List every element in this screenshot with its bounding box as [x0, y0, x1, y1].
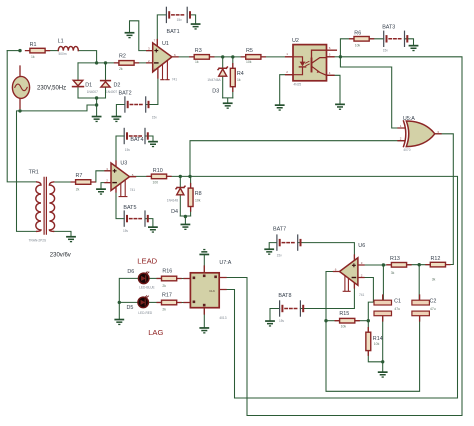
svg-text:U7:A: U7:A	[219, 260, 231, 266]
wire node B up branch to U5 input2	[190, 141, 404, 177]
wire U6 pin2 jog down to R15 node	[358, 278, 374, 321]
svg-text:1N4746A: 1N4746A	[207, 78, 221, 82]
svg-text:15v: 15v	[177, 18, 183, 22]
wire R16 to U7	[177, 278, 191, 280]
ground U3 inverting	[96, 188, 106, 194]
wire C1 top branch	[382, 265, 384, 300]
node D3 junction	[221, 55, 224, 58]
wire D6 D5 left rail to ground	[119, 278, 138, 318]
wire BAT7 right to U6 V+	[298, 243, 355, 261]
svg-text:R10: R10	[153, 168, 163, 174]
svg-text:1k: 1k	[195, 60, 199, 64]
wire diode top rail D1-D2-R2	[78, 62, 119, 64]
wire BAT4 right to ground	[145, 136, 153, 141]
wire R5 to U2 pin1	[261, 56, 293, 58]
wire BAT1 right to ground	[190, 15, 196, 23]
resistor R17	[157, 300, 181, 305]
battery BAT2	[124, 96, 149, 112]
wire D3 bottom	[222, 76, 224, 98]
WIRES_RIGHTLOOPS	[119, 57, 462, 416]
wire U7 vcc stem	[203, 255, 205, 272]
svg-text:100: 100	[153, 180, 159, 184]
svg-text:2k: 2k	[162, 284, 166, 288]
svg-text:2k: 2k	[119, 67, 123, 71]
svg-text:C1: C1	[394, 299, 401, 305]
optocoupler U2	[286, 45, 337, 81]
svg-text:BAT1: BAT1	[167, 29, 180, 35]
wire TR1 secondary bottom to ground	[54, 231, 71, 236]
wire R4 branch	[232, 57, 234, 69]
battery BAT1	[166, 7, 191, 23]
svg-text:D5: D5	[127, 305, 134, 311]
ground U2 pin4	[335, 104, 345, 110]
led D5	[138, 296, 149, 308]
wire C2 top branch	[418, 265, 420, 300]
wire D1 bottom	[77, 88, 79, 98]
power symbol U7 vcc	[199, 249, 209, 255]
svg-text:R1: R1	[30, 42, 37, 48]
svg-text:1N4007: 1N4007	[106, 90, 117, 94]
svg-text:R5: R5	[246, 48, 253, 54]
resistor R2	[115, 61, 139, 66]
svg-text:47u: 47u	[394, 307, 400, 311]
wire R14 bottom to ground node	[368, 351, 382, 362]
svg-text:R16: R16	[162, 268, 172, 274]
battery BAT8	[279, 300, 304, 316]
resistor R1	[26, 48, 50, 53]
wire C1 bottom to ground node	[382, 316, 384, 371]
svg-text:3k: 3k	[432, 277, 436, 281]
wire U1 ground to noninverting input	[130, 21, 153, 51]
resistor R16	[157, 276, 181, 281]
ground BAT3	[409, 45, 419, 51]
node A U2 pin5 junction	[339, 55, 342, 58]
svg-text:R13: R13	[390, 256, 400, 262]
op-amp U6 (mirrored)	[334, 255, 365, 291]
svg-text:10k: 10k	[374, 342, 380, 346]
wire BAT7 left to ground	[269, 243, 277, 249]
wire D3-R4 bottom rail to ground	[223, 98, 233, 103]
wire R4 bottom	[232, 87, 234, 98]
svg-text:BAT2: BAT2	[119, 91, 132, 97]
wire AC source bottom rail	[20, 105, 97, 111]
wire R15 right lead	[355, 320, 369, 322]
svg-text:R15: R15	[339, 311, 349, 317]
transformer TR1	[36, 177, 55, 234]
wire BAT3 right to ground	[404, 39, 413, 45]
svg-text:BAT7: BAT7	[273, 226, 286, 232]
wire diode bottom rail	[78, 98, 106, 116]
svg-text:1N4148: 1N4148	[167, 198, 178, 202]
svg-text:15v: 15v	[277, 253, 283, 257]
wire U3 V+ to BAT4	[116, 136, 124, 167]
wire U3 inverting input to ground	[101, 183, 111, 189]
dflipflop U7:A	[184, 266, 226, 314]
node diode rail junction	[95, 96, 98, 99]
svg-text:BAT3: BAT3	[382, 25, 395, 31]
diode D1	[73, 80, 84, 86]
wire U6 V- down to BAT8	[300, 283, 354, 309]
svg-text:R14: R14	[373, 336, 383, 342]
wire U6 output down the left side	[326, 272, 420, 392]
node D4 R8 gnd junction	[184, 215, 187, 218]
op-amp U3	[105, 161, 136, 197]
svg-text:741: 741	[172, 78, 178, 82]
svg-text:U3: U3	[120, 160, 127, 166]
svg-text:4013: 4013	[219, 316, 226, 320]
node C2 R12 junction	[418, 263, 421, 266]
wire left rail down to TR1 primary top	[7, 51, 37, 182]
svg-text:U1: U1	[162, 41, 169, 47]
node D2 junction	[104, 61, 107, 64]
svg-text:R8: R8	[195, 191, 202, 197]
svg-text:L1: L1	[58, 39, 64, 45]
svg-text:LED-BLUE: LED-BLUE	[139, 286, 155, 290]
ground TR1 secondary	[66, 236, 76, 242]
svg-text:R4: R4	[237, 71, 244, 77]
svg-text:15v: 15v	[125, 148, 131, 152]
svg-text:R7: R7	[76, 173, 83, 179]
svg-text:230V,50Hz: 230V,50Hz	[37, 86, 66, 92]
wire node A jog to U5 input1	[340, 57, 404, 128]
wire U2 pin5 node	[327, 56, 341, 58]
ground D3 R4	[223, 102, 233, 108]
AC source V1	[12, 66, 29, 109]
svg-text:TRAN-2P2S: TRAN-2P2S	[29, 239, 47, 243]
wire top-left to R1	[7, 50, 20, 52]
node D4 junction	[179, 175, 182, 178]
node R14 C1 gnd junction	[381, 360, 384, 363]
node R1 AC junction	[18, 49, 21, 52]
wire R7 to U3 noninverting input	[91, 171, 111, 182]
wire node A up to R6	[340, 39, 354, 57]
svg-text:741: 741	[130, 188, 136, 192]
svg-text:4070: 4070	[403, 148, 410, 152]
svg-text:CLK: CLK	[209, 289, 215, 293]
wire BAT8 left to ground	[270, 309, 280, 321]
node B R8 junction	[188, 175, 191, 178]
wire D6 to R16	[149, 277, 161, 279]
svg-text:TR1: TR1	[29, 170, 39, 176]
wire node A long loop right and down to U7 Q output	[219, 57, 462, 416]
resistor R12	[426, 262, 450, 267]
wire U7 ground stem	[203, 308, 205, 327]
svg-text:1k: 1k	[31, 55, 35, 59]
resistor R10	[147, 174, 171, 179]
svg-text:15v: 15v	[383, 49, 389, 53]
inductor L1	[58, 46, 78, 50]
node D5 rail junction	[118, 301, 121, 304]
svg-text:10k: 10k	[195, 199, 201, 203]
wire D4-R8 bottom rail to ground	[180, 216, 190, 224]
svg-text:1N4007: 1N4007	[87, 90, 98, 94]
svg-text:C2: C2	[430, 299, 437, 305]
svg-text:D6: D6	[127, 269, 134, 275]
node AC bottom junction	[18, 109, 21, 112]
xor gate U5:A	[398, 121, 441, 147]
svg-text:15v: 15v	[152, 115, 158, 119]
wire L1 right elbow down to diode rail	[78, 51, 96, 63]
battery BAT3	[383, 31, 408, 47]
wire R8 branch	[190, 176, 192, 188]
ground U1 noninverting	[125, 32, 135, 38]
battery BAT4	[124, 128, 149, 144]
wire U2 pin4 to ground	[327, 75, 341, 103]
svg-text:R17: R17	[162, 293, 172, 299]
wire R6 to BAT3	[369, 38, 384, 40]
svg-text:U6: U6	[358, 243, 365, 249]
svg-text:741: 741	[359, 293, 365, 297]
svg-text:BAT8: BAT8	[278, 293, 291, 299]
ground BAT5	[148, 226, 158, 232]
svg-text:47u: 47u	[430, 307, 436, 311]
svg-text:R12: R12	[431, 256, 441, 262]
svg-text:10k: 10k	[341, 325, 347, 329]
svg-text:2k: 2k	[76, 188, 80, 192]
resistor R8	[188, 184, 193, 212]
ground BAT7	[264, 248, 274, 254]
op-amp U1	[147, 40, 178, 80]
svg-text:D4: D4	[171, 209, 178, 215]
wire BAT5 right to ground	[145, 219, 153, 227]
node L1 D1 junction	[95, 61, 98, 64]
svg-text:4N25: 4N25	[294, 82, 302, 86]
ground BAT8	[265, 320, 275, 326]
wire R8 bottom	[190, 207, 192, 217]
ground D4 R8	[181, 224, 191, 230]
wire BAT2 right up to U1 V-	[146, 72, 158, 105]
resistor R14	[366, 328, 371, 356]
wire U2 pin2 to ground	[280, 75, 293, 105]
svg-text:500m: 500m	[59, 52, 67, 56]
wire D4 branch	[179, 176, 181, 187]
wire U6 pin3 to R13 node	[358, 264, 390, 266]
wire U5 output down to R12	[435, 134, 454, 265]
node C1 R13 junction	[382, 263, 385, 266]
wire BAT2 left to ground	[116, 105, 125, 116]
zener diode D4	[176, 186, 185, 195]
led D6	[138, 272, 149, 284]
zener diode D3	[218, 67, 227, 76]
capacitor C1	[374, 295, 392, 321]
diode D2	[101, 81, 111, 88]
node gnd stub junction	[95, 103, 98, 106]
ground U2 pin2	[275, 104, 285, 110]
wire R2 to U1 inverting input	[134, 62, 153, 64]
svg-text:2k: 2k	[162, 307, 166, 311]
svg-text:R6: R6	[354, 31, 361, 37]
resistor R13	[387, 263, 411, 268]
wire AC bottom to TR1 primary bottom	[17, 111, 37, 231]
svg-text:15v: 15v	[123, 229, 129, 233]
svg-text:1k: 1k	[237, 78, 241, 82]
svg-text:BAT4: BAT4	[130, 137, 143, 143]
wire D2 top stem	[105, 63, 107, 81]
ground BAT4	[148, 141, 158, 147]
capacitor C2	[412, 295, 430, 321]
wire node B long right and down to U7 Qbar output	[190, 176, 458, 398]
wire U3 output to R10	[130, 175, 152, 177]
wire R13 to C2 node	[408, 264, 431, 266]
svg-text:BAT5: BAT5	[123, 205, 136, 211]
ground BAT1	[191, 23, 201, 29]
svg-text:230v/6v: 230v/6v	[50, 253, 71, 259]
wire R10 to node B	[167, 175, 191, 177]
svg-text:10k: 10k	[355, 43, 361, 47]
svg-text:D3: D3	[212, 88, 219, 94]
svg-text:R3: R3	[195, 48, 202, 54]
wire D2 bottom	[105, 87, 107, 98]
ground BAT2	[112, 116, 122, 122]
battery BAT5	[124, 210, 149, 226]
wire U1 output to R3	[172, 56, 194, 58]
resistor R4	[230, 64, 235, 92]
wire R1 to L1	[45, 50, 58, 52]
resistor R15	[335, 318, 359, 323]
svg-text:U5:A: U5:A	[403, 116, 415, 122]
wire R17 to U7	[177, 302, 191, 304]
svg-text:LED-RED: LED-RED	[138, 311, 153, 315]
resistor R7	[71, 180, 95, 185]
wire R15 left lead	[326, 320, 340, 322]
svg-text:15v: 15v	[279, 319, 285, 323]
WIRES_TOPLEFT	[7, 15, 413, 236]
svg-text:3k: 3k	[391, 271, 395, 275]
ground diode rail	[92, 116, 102, 122]
wire D4 bottom	[179, 195, 181, 216]
svg-text:10k: 10k	[246, 60, 252, 64]
wire D1 top stem	[77, 63, 79, 80]
ground U7	[199, 327, 209, 333]
resistor R6	[350, 37, 374, 42]
svg-text:R2: R2	[119, 54, 126, 60]
DOTS_TEXTS	[18, 49, 421, 364]
wire TR1 secondary top to R7	[54, 181, 76, 183]
wire R14 top	[367, 321, 369, 332]
svg-text:LEAD: LEAD	[137, 257, 157, 266]
node R4 junction	[231, 55, 234, 58]
ground R14 C1	[378, 371, 388, 377]
svg-text:LAG: LAG	[148, 328, 163, 337]
svg-text:D2: D2	[114, 83, 121, 89]
wire U3 V- to BAT5	[116, 187, 124, 219]
wire D3 branch	[222, 57, 224, 69]
svg-text:U2: U2	[292, 38, 299, 44]
battery BAT7	[276, 234, 301, 250]
node R15 R14 junction	[367, 319, 370, 322]
ground LED rail	[114, 319, 124, 325]
svg-text:D1: D1	[85, 82, 92, 88]
resistor R5	[241, 55, 265, 60]
wire BAT1 left to U1 V+	[157, 15, 166, 46]
node U6 out R15 junction	[324, 319, 327, 322]
wire R3 to R5 node	[209, 56, 246, 58]
resistor R3	[190, 55, 214, 60]
wire D5 to R17	[149, 301, 162, 303]
